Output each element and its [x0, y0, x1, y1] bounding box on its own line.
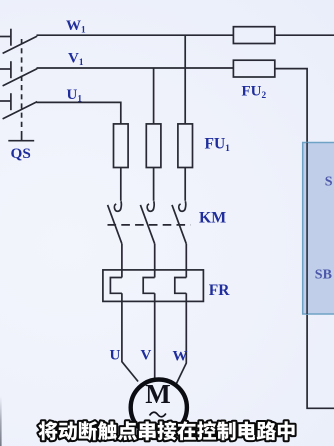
- contactor KM main contact 3: moving blade: [172, 205, 186, 244]
- caption: subtitle text: [38, 421, 294, 440]
- thermal relay FR box: [103, 270, 203, 302]
- fuse FU1b: [146, 124, 161, 168]
- FR heater element 1: [110, 278, 122, 294]
- contactor KM main contact 2: moving blade: [140, 205, 154, 244]
- wire: KM contact 1 to FR heater: [121, 244, 123, 278]
- motor M circle: [131, 380, 187, 436]
- svg-text:V1: V1: [68, 51, 84, 69]
- contactor KM main contact 3: fixed-contact arc: [179, 201, 186, 211]
- disconnect switch QS pole 3 (U): [0, 93, 37, 119]
- wire: FR to motor terminal U: [122, 293, 138, 381]
- wire: control circuit vertical over panel: [306, 143, 308, 315]
- svg-text:U1: U1: [67, 87, 83, 105]
- svg-text:S: S: [325, 175, 333, 190]
- wire: bus U1: [37, 102, 121, 124]
- contactor KM main contact 2: fixed-contact arc: [147, 201, 154, 211]
- translucent blue panel (button legend): [303, 143, 334, 315]
- FR heater element 2: [143, 278, 155, 294]
- fuse FU1c: [178, 124, 193, 168]
- FR heater element 3: [175, 278, 187, 294]
- wire: FR to motor terminal W: [176, 293, 186, 383]
- motor ~ symbol: [150, 412, 166, 417]
- svg-text:V: V: [141, 348, 152, 364]
- wire: KM contact 2 to FR heater: [154, 244, 156, 278]
- KM linkage (dashed): [108, 224, 191, 226]
- svg-text:M: M: [145, 379, 170, 409]
- wire: FU1b to KM contact: [153, 168, 155, 201]
- svg-text:QS: QS: [11, 145, 31, 162]
- svg-text:U: U: [110, 348, 121, 364]
- fuse FU2a (on W1 line): [233, 27, 274, 44]
- svg-text:KM: KM: [199, 210, 226, 227]
- wire: FU1c to KM contact: [184, 168, 186, 201]
- wire: FU1a to KM contact: [120, 168, 122, 201]
- wire: V1 line to control circuit, down right side: [275, 69, 334, 409]
- contactor KM main contact 1: fixed-contact arc: [114, 201, 121, 211]
- disconnect switch QS pole 2 (V): [0, 61, 37, 86]
- wire: W1 line to right edge: [275, 34, 334, 36]
- wire: bus W1: [37, 34, 234, 36]
- fuse FU2b (on V1 line): [233, 60, 274, 77]
- fuse FU1a: [114, 124, 129, 168]
- svg-text:FU2: FU2: [242, 84, 267, 102]
- QS mechanical linkage (dashed) and handle: [8, 39, 34, 141]
- disconnect switch QS pole 1 (W): [0, 29, 37, 54]
- wire: drop from V1 at x=153.5: [153, 68, 155, 124]
- wire: FR to motor terminal V: [154, 293, 156, 379]
- wire: KM contact 3 to FR heater: [185, 244, 187, 278]
- svg-text:FU1: FU1: [205, 136, 231, 155]
- svg-text:W1: W1: [66, 18, 86, 36]
- wire: bus V1: [37, 67, 234, 69]
- wire: drop from W1 at x=185: [184, 35, 186, 124]
- svg-text:FR: FR: [209, 282, 230, 299]
- svg-text:W: W: [173, 349, 188, 365]
- svg-text:SB: SB: [315, 268, 332, 283]
- contactor KM main contact 1: moving blade: [108, 205, 122, 244]
